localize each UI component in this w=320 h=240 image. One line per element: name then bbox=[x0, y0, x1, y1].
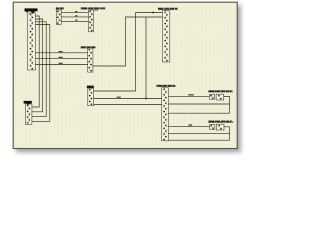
svg-text:MOL-A/B: MOL-A/B bbox=[56, 6, 63, 10]
svg-text:MADE SIGN-TERM 2: MADE SIGN-TERM 2 bbox=[208, 121, 234, 124]
svg-text:SHELL-B JACK-3,4 PM: SHELL-B JACK-3,4 PM bbox=[158, 7, 178, 11]
svg-text:MADE SIGN-TERM 1: MADE SIGN-TERM 1 bbox=[208, 91, 234, 94]
svg-text:SHELL-A JACK-1,2 PM: SHELL-A JACK-1,2 PM bbox=[81, 6, 104, 10]
svg-text:MOL-A/B JACK PM: MOL-A/B JACK PM bbox=[159, 85, 176, 88]
svg-text:SHELL-B JACK-1 PM: SHELL-B JACK-1 PM bbox=[81, 46, 96, 49]
